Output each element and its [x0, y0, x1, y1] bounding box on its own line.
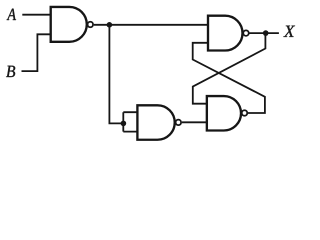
bubble G4	[242, 110, 248, 116]
wire G2 output to X	[250, 32, 279, 34]
node J1 junction dot	[107, 22, 113, 28]
label X	[283, 26, 295, 37]
wire A input	[22, 14, 50, 16]
wire G3 output to G4 bottom input	[182, 121, 207, 123]
nand gate G3 (inverter, inputs tied)	[137, 105, 174, 139]
wire X node cross-coupled to G4 top input	[193, 33, 266, 104]
nand gate G4 (bottom right)	[207, 96, 241, 130]
bubble G2	[243, 30, 249, 36]
wire B input	[22, 34, 51, 71]
bubble G1	[88, 22, 94, 28]
bubble G3	[176, 120, 182, 126]
node X junction dot	[263, 30, 269, 36]
wire J1 down to G3 input junction	[109, 25, 123, 124]
wire G1 output to G2 top input	[94, 24, 208, 26]
node J2 junction dot	[121, 121, 127, 127]
wire G3 input bar and stubs	[123, 112, 137, 131]
wire G4 output cross-coupled to G2 bottom input	[193, 43, 265, 113]
label A	[7, 9, 16, 20]
nand gate G1 (left, inputs A B)	[51, 7, 87, 42]
nand gate G2 (top right)	[208, 16, 243, 51]
label B	[6, 66, 15, 77]
